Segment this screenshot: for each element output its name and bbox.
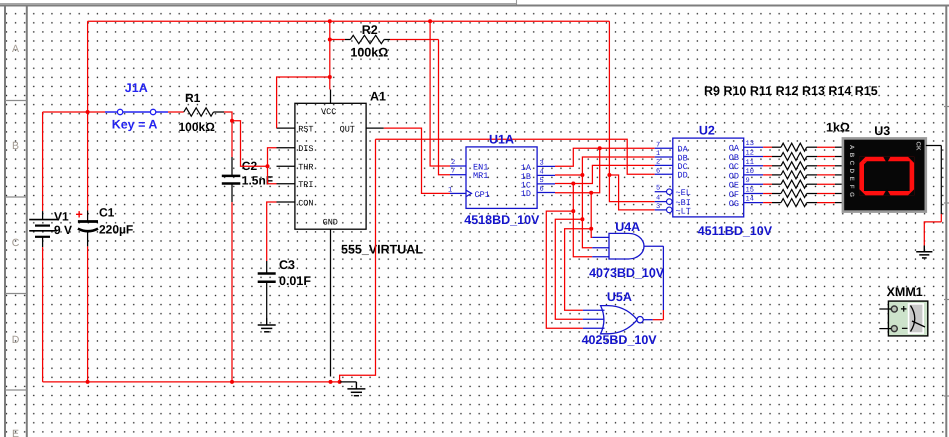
wire CON lead — [267, 202, 277, 261]
wire U4A out to U5A out — [653, 246, 664, 320]
display U3 body — [843, 138, 926, 211]
resistor R10 — [763, 153, 843, 161]
wire RST riser — [277, 77, 330, 128]
label C3 value 0.01F — [279, 274, 311, 288]
wire GND horizontal to DD — [376, 139, 655, 174]
counter U1A 4518 body — [450, 147, 555, 209]
wire 1A to DA — [555, 148, 655, 166]
svg-text:4073BD_10V: 4073BD_10V — [589, 266, 665, 280]
resistor R12 — [763, 171, 843, 179]
wire 1C vertical to gates — [572, 184, 574, 212]
wire 1C to DC — [555, 165, 655, 183]
label C3 — [279, 258, 295, 272]
wire 1C to U4A input 3 — [573, 211, 592, 257]
svg-text:5: 5 — [656, 185, 660, 193]
labels U3 segment pins — [848, 142, 922, 198]
wire battery negative lead — [42, 247, 44, 382]
node junction VDD/EN1 riser — [428, 19, 432, 23]
svg-text:9: 9 — [746, 177, 750, 185]
label XMM1 — [887, 285, 923, 299]
svg-text:VCC: VCC — [321, 107, 336, 117]
svg-text:E: E — [848, 177, 855, 181]
svg-text:4: 4 — [540, 168, 544, 176]
wire 1B jog to U5A column — [555, 219, 583, 319]
svg-text:−: − — [902, 323, 908, 335]
svg-text:~EL: ~EL — [676, 188, 691, 198]
svg-text:C1: C1 — [99, 206, 115, 220]
svg-text:OUT: OUT — [340, 124, 355, 134]
capacitor C1 — [78, 211, 98, 247]
svg-text:F: F — [848, 185, 855, 189]
label R1 — [185, 91, 201, 105]
ground earth symbol main — [347, 382, 365, 396]
node junction 1C fanout — [571, 209, 575, 213]
label C2 value 1.5nF — [242, 174, 273, 188]
label U2 — [699, 124, 715, 138]
label C2 — [242, 159, 258, 173]
label U5A — [607, 290, 632, 304]
wire OUT to CP1 — [384, 128, 450, 193]
svg-text:V1: V1 — [54, 210, 69, 224]
svg-text:J1A: J1A — [125, 81, 148, 95]
wire battery top segment — [43, 111, 88, 113]
svg-text:A1: A1 — [370, 90, 386, 104]
svg-text:CP1: CP1 — [475, 190, 490, 200]
node junction VDD branch — [607, 173, 611, 177]
wire C2 top lead — [231, 121, 233, 176]
display U3 lit segments digit 0 — [859, 157, 914, 196]
wire J1A to R1 — [168, 111, 184, 113]
wire DA branch to 1D row — [555, 148, 600, 193]
label 4073BD_10V — [589, 266, 665, 280]
wire 1D vertical to gates — [590, 193, 592, 229]
label J1A Key = A — [112, 117, 158, 131]
wire TRI riser — [268, 166, 277, 184]
wire R2 to MR1 — [439, 40, 451, 175]
label C1 polarity + — [76, 208, 83, 222]
svg-text:R9 R10 R11 R12 R13 R14 R15: R9 R10 R11 R12 R13 R14 R15 — [704, 84, 878, 98]
svg-text:3: 3 — [656, 203, 660, 211]
svg-text:C: C — [12, 237, 20, 249]
svg-text:DIS: DIS — [298, 144, 313, 154]
node junction 1C branch — [571, 182, 575, 186]
node junction rail/555 GND — [329, 380, 333, 384]
label J1A — [125, 81, 148, 95]
svg-text:9 V: 9 V — [54, 223, 72, 237]
svg-text:U1A: U1A — [489, 133, 514, 147]
wire C2 bottom lead — [231, 184, 233, 382]
svg-text:+: + — [76, 208, 83, 222]
label R2 value 100kΩ — [350, 46, 388, 60]
svg-text:+: + — [901, 304, 907, 316]
svg-text:OG: OG — [729, 199, 739, 209]
svg-text:U5A: U5A — [607, 290, 632, 304]
resistor R2 — [350, 35, 384, 43]
label 4025BD_10V — [582, 333, 658, 347]
node junction J1A row / C1 column — [86, 110, 90, 114]
svg-text:6: 6 — [656, 167, 660, 175]
svg-text:U2: U2 — [699, 124, 715, 138]
svg-text:G: G — [848, 192, 855, 197]
label 555_VIRTUAL — [341, 242, 423, 256]
wire U3 CK to ground — [924, 146, 941, 246]
multimeter XMM1 — [879, 301, 928, 336]
wire C1 top lead red — [87, 203, 89, 210]
svg-text:15: 15 — [746, 187, 754, 195]
gate U4A AND body — [592, 233, 663, 259]
node junction rail/battery — [86, 380, 90, 384]
node junction DA/1D branch — [598, 146, 602, 150]
wire rail to earth ground — [340, 381, 357, 383]
label C1 — [99, 206, 115, 220]
svg-text:11: 11 — [746, 159, 754, 167]
labels U1A pin numbers — [448, 159, 544, 194]
svg-text:XMM1: XMM1 — [887, 285, 923, 299]
svg-text:E: E — [12, 428, 19, 437]
svg-text:555_VIRTUAL: 555_VIRTUAL — [341, 242, 423, 256]
label A1 — [370, 90, 386, 104]
svg-text:B: B — [848, 153, 855, 158]
wire 1D to U4A input 1 — [591, 229, 592, 238]
op-amp/timer A1 555 body — [277, 90, 384, 377]
gate U5A NOR body — [583, 306, 653, 334]
wire 1B to DB — [555, 157, 655, 175]
svg-text:4025BD_10V: 4025BD_10V — [582, 333, 658, 347]
svg-text:RST: RST — [298, 124, 313, 134]
label R2 — [362, 23, 378, 37]
svg-text:10: 10 — [746, 168, 754, 176]
resistor R14 — [763, 190, 843, 198]
svg-text:MR1: MR1 — [473, 171, 488, 181]
resistor R13 — [763, 180, 843, 188]
svg-text:THR: THR — [298, 163, 313, 173]
svg-text:1: 1 — [656, 150, 660, 158]
svg-text:GND: GND — [323, 218, 338, 228]
svg-text:C: C — [848, 161, 855, 166]
node junction 1B fanout — [580, 217, 584, 221]
wire R1 to C2 column — [224, 112, 232, 121]
label 1kΩ — [826, 121, 850, 135]
node junction 1B branch — [580, 173, 584, 177]
svg-text:2: 2 — [451, 159, 455, 167]
label 4518BD_10V — [464, 213, 540, 227]
label V1 — [54, 210, 69, 224]
battery V1 — [29, 211, 57, 247]
wire R1 lead — [214, 111, 225, 113]
node junction 1D fanout — [589, 227, 593, 231]
wire ground bottom rail — [43, 381, 340, 383]
label R9 R10 R11 R12 R13 R14 R15 — [704, 84, 878, 98]
svg-text:1kΩ: 1kΩ — [826, 121, 850, 135]
svg-text:U3: U3 — [874, 124, 890, 138]
svg-text:D: D — [848, 169, 855, 174]
svg-text:4: 4 — [656, 195, 660, 203]
wire VDD to BI — [609, 21, 654, 201]
wire VCC drop — [329, 21, 331, 89]
resistor R11 — [763, 162, 843, 170]
wire 1D jog to U5A column — [565, 229, 592, 310]
svg-text:CON: CON — [298, 198, 313, 208]
wire DIS riser — [268, 148, 277, 167]
labels 555 pin names — [298, 107, 355, 228]
svg-text:A: A — [12, 43, 19, 55]
capacitor C2 — [222, 176, 241, 184]
wire J1A feed — [88, 111, 105, 113]
wire VDD top rail — [88, 20, 610, 22]
node junction VCC/RST — [328, 75, 332, 79]
svg-text:1.5nF: 1.5nF — [242, 174, 273, 188]
label R1 value 100kΩ — [179, 120, 216, 134]
svg-text:2: 2 — [656, 158, 660, 166]
node junction rail/riser — [338, 380, 342, 384]
label C1 value 220µF — [99, 223, 133, 237]
wire R2 right lead — [384, 39, 438, 41]
label U3 — [874, 124, 890, 138]
wire rail riser step — [340, 139, 376, 382]
capacitor C3 — [258, 261, 276, 318]
svg-text:14: 14 — [746, 196, 754, 204]
wire R1 node to THR column — [232, 121, 266, 167]
svg-text:~LT: ~LT — [676, 206, 691, 216]
wire 1B to U4A input 2 — [582, 219, 592, 247]
svg-text:1D: 1D — [521, 189, 531, 199]
svg-text:220µF: 220µF — [99, 223, 133, 237]
ground earth symbol C3 — [258, 318, 276, 332]
svg-text:3: 3 — [540, 159, 544, 167]
wire VDD branch to LT — [609, 175, 654, 210]
node junction rail/C2 — [230, 380, 234, 384]
label U1A — [489, 133, 514, 147]
svg-text:CK: CK — [914, 142, 921, 151]
labels U2 pin numbers — [656, 140, 754, 211]
svg-text:12: 12 — [746, 150, 754, 158]
wire 1B vertical to gates — [581, 175, 583, 219]
wire VDD to EN1 — [430, 21, 450, 166]
decoder U2 4511 body — [655, 138, 763, 217]
wire 1C jog to U5A column — [546, 211, 583, 328]
resistor R1 — [184, 108, 214, 116]
svg-text:C3: C3 — [279, 258, 295, 272]
svg-text:4511BD_10V: 4511BD_10V — [698, 224, 773, 238]
switch J1A — [105, 109, 168, 114]
svg-text:TRI: TRI — [298, 180, 313, 190]
wire C1 bottom lead — [87, 246, 89, 382]
label U4A — [615, 220, 640, 234]
wire VDD left drop to J1A row and C1 — [87, 21, 89, 203]
labels U2 pin names — [676, 144, 740, 217]
svg-text:5: 5 — [540, 177, 544, 185]
resistor R15 — [763, 199, 843, 207]
svg-text:7: 7 — [451, 168, 455, 176]
svg-text:4518BD_10V: 4518BD_10V — [464, 213, 540, 227]
svg-text:1: 1 — [448, 186, 452, 194]
svg-text:R1: R1 — [185, 91, 201, 105]
svg-text:DD: DD — [678, 171, 688, 181]
labels U1A pin names — [473, 163, 532, 200]
svg-text:100kΩ: 100kΩ — [350, 46, 388, 60]
svg-text:13: 13 — [746, 140, 754, 148]
svg-text:U4A: U4A — [615, 220, 640, 234]
resistor R9 — [763, 143, 843, 151]
node junction R2 tap — [328, 38, 332, 42]
label V1 value 9 V — [54, 223, 72, 237]
svg-text:D: D — [12, 334, 20, 346]
svg-text:7: 7 — [656, 141, 660, 149]
svg-text:Key = A: Key = A — [112, 117, 158, 131]
svg-text:6: 6 — [540, 186, 544, 194]
label 4511BD_10V — [698, 224, 773, 238]
svg-text:0.01F: 0.01F — [279, 274, 311, 288]
node junction VDD/VCC riser — [328, 19, 332, 23]
node junction 1D gate branch — [589, 191, 593, 195]
node junction R1/C2/THR — [230, 119, 234, 123]
svg-text:A: A — [848, 145, 855, 150]
svg-text:R2: R2 — [362, 23, 378, 37]
wire R2 left lead — [330, 39, 351, 41]
node junction THR/TRI/DIS — [266, 164, 270, 168]
wire battery positive lead — [42, 112, 44, 211]
ground earth symbol display — [916, 246, 932, 258]
svg-text:B: B — [12, 140, 19, 152]
svg-text:100kΩ: 100kΩ — [179, 120, 216, 134]
